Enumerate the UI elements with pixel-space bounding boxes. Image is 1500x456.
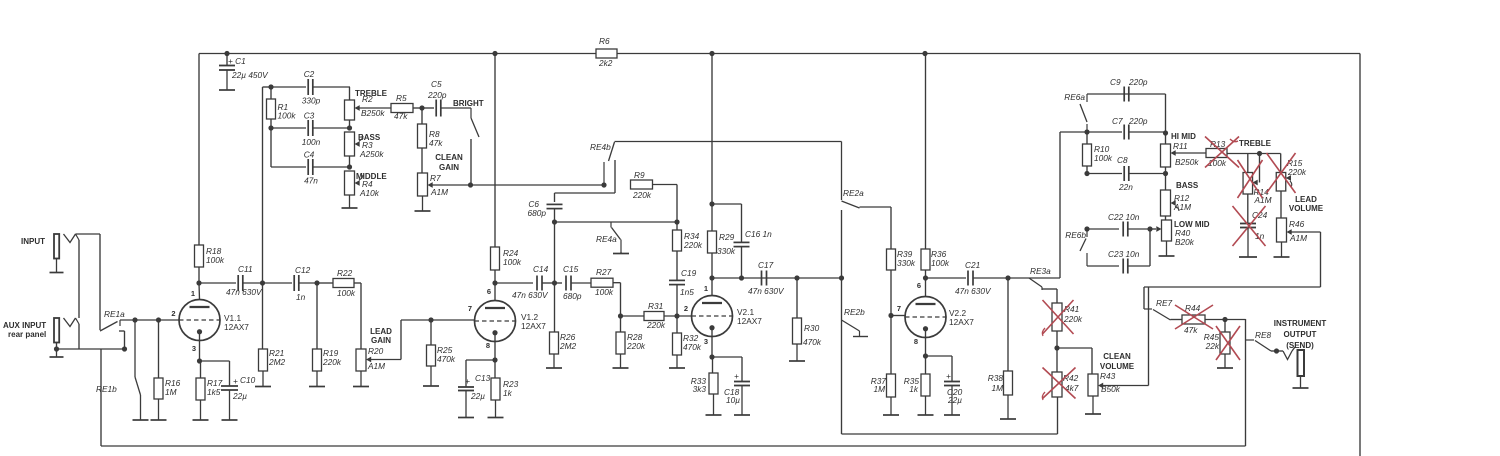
svg-text:1: 1 bbox=[704, 284, 708, 293]
capacitor C5 bbox=[422, 79, 447, 117]
wire C19 bottom bbox=[676, 285, 678, 317]
node V1.2 cathode junction bbox=[492, 357, 497, 362]
ground R30 bbox=[789, 344, 805, 361]
wire R36 to anode bbox=[925, 270, 927, 297]
red X over R42 bbox=[1042, 368, 1075, 401]
resistor R9 bbox=[631, 170, 653, 200]
svg-text:LEAD: LEAD bbox=[370, 327, 392, 336]
svg-text:RE4a: RE4a bbox=[596, 234, 617, 244]
resistor R29 bbox=[708, 231, 736, 256]
svg-text:100k: 100k bbox=[931, 258, 950, 268]
svg-text:TREBLE: TREBLE bbox=[1239, 139, 1272, 148]
ground AUX jack bbox=[50, 349, 64, 357]
resistor R13 bbox=[1206, 139, 1227, 168]
svg-text:47k: 47k bbox=[1184, 325, 1198, 335]
ground R21 bbox=[255, 371, 271, 387]
pin 7 V2.2 bbox=[897, 304, 901, 313]
svg-text:22µ 450V: 22µ 450V bbox=[231, 70, 269, 80]
potentiometer R20 bbox=[356, 346, 385, 371]
svg-text:220k: 220k bbox=[632, 190, 652, 200]
ground C13 bbox=[458, 391, 474, 418]
svg-text:RE7: RE7 bbox=[1156, 298, 1173, 308]
pin 6 V1.2 bbox=[487, 287, 491, 296]
svg-text:C17: C17 bbox=[758, 260, 774, 270]
wire INPUT tip to RE1a bbox=[76, 234, 101, 330]
wire C16 bottom bbox=[741, 247, 743, 279]
svg-text:C13: C13 bbox=[475, 373, 491, 383]
wire R29 to anode rail bbox=[711, 253, 713, 278]
potentiometer R43 bbox=[1088, 371, 1121, 396]
svg-text:47n 630V: 47n 630V bbox=[748, 286, 785, 296]
resistor R25 bbox=[427, 320, 456, 366]
capacitor C19 bbox=[669, 251, 697, 297]
resistor R5 bbox=[391, 93, 422, 121]
resistor R18 bbox=[195, 245, 225, 267]
node C12/R22/R19 junction bbox=[314, 280, 319, 285]
svg-text:CLEAN: CLEAN bbox=[1103, 352, 1131, 361]
pin 8 V1.2 bbox=[486, 341, 490, 350]
svg-text:A10k: A10k bbox=[359, 188, 380, 198]
pin 3 V2.1 bbox=[704, 337, 708, 346]
resistor R30 bbox=[793, 278, 822, 347]
svg-text:10µ: 10µ bbox=[726, 395, 740, 405]
wire clean gain output bbox=[432, 184, 471, 186]
node C21/R38 junction bbox=[1005, 275, 1010, 280]
resistor R1 bbox=[267, 87, 297, 121]
red X over R44 bbox=[1175, 305, 1213, 329]
wire R9 to R34 bbox=[653, 185, 678, 231]
wire R44 to node bbox=[1205, 319, 1246, 321]
node C3 junction bbox=[268, 125, 273, 130]
node V2.2 grid junction bbox=[888, 313, 893, 318]
label V2.1 12AX7 bbox=[737, 307, 762, 326]
svg-text:B250k: B250k bbox=[361, 108, 385, 118]
svg-text:R22: R22 bbox=[337, 268, 353, 278]
svg-text:C8: C8 bbox=[1117, 155, 1128, 165]
relay contact RE1a bbox=[100, 309, 125, 331]
ground INPUT jack bbox=[50, 259, 64, 273]
wire cathode to C10 bbox=[200, 361, 230, 386]
relay contact RE4a bbox=[596, 222, 621, 254]
node V2.2 anode bbox=[923, 275, 928, 280]
wire AUX sleeve bbox=[56, 343, 58, 350]
svg-text:220p: 220p bbox=[1128, 116, 1148, 126]
svg-text:330k: 330k bbox=[897, 258, 916, 268]
svg-text:RE4b: RE4b bbox=[590, 142, 611, 152]
wire V1.2 cathode bbox=[494, 332, 496, 360]
svg-text:7: 7 bbox=[468, 304, 472, 313]
label LEAD VOLUME bbox=[1289, 195, 1324, 213]
svg-text:R2: R2 bbox=[362, 94, 373, 104]
svg-text:680p: 680p bbox=[528, 208, 547, 218]
node V1.2 anode bbox=[492, 280, 497, 285]
svg-text:47n 630V: 47n 630V bbox=[512, 290, 549, 300]
red X over C24 bbox=[1233, 206, 1266, 246]
label AUX INPUT bbox=[3, 321, 46, 339]
wire stack feed riser bbox=[263, 87, 272, 283]
svg-text:22n: 22n bbox=[1118, 182, 1133, 192]
svg-text:C7: C7 bbox=[1112, 116, 1123, 126]
resistor R41 bbox=[1052, 303, 1083, 331]
label CLEAN VOLUME bbox=[1100, 352, 1135, 371]
node V1.1 cathode junction bbox=[197, 358, 202, 363]
capacitor C23 bbox=[1087, 229, 1150, 274]
potentiometer R7 bbox=[418, 148, 449, 197]
svg-text:A1M: A1M bbox=[1289, 233, 1307, 243]
relay contact RE7 bbox=[1144, 298, 1173, 320]
ground C1 bbox=[219, 70, 235, 90]
ground R28 bbox=[613, 354, 629, 368]
svg-text:2: 2 bbox=[171, 309, 175, 318]
label INPUT bbox=[21, 237, 45, 246]
svg-text:1k5: 1k5 bbox=[207, 387, 221, 397]
wire B+ drop to R24 bbox=[494, 54, 496, 248]
capacitor C15 bbox=[555, 264, 592, 301]
svg-text:C23 10n: C23 10n bbox=[1108, 249, 1140, 259]
node C8 left junction bbox=[1084, 171, 1089, 176]
svg-text:R31: R31 bbox=[648, 301, 663, 311]
capacitor C12 bbox=[263, 265, 318, 302]
tube V2.1 bbox=[692, 296, 733, 337]
node C22 right bbox=[1147, 226, 1152, 231]
pin 3 V1.1 bbox=[192, 344, 196, 353]
wire R46 wiper out bbox=[1144, 232, 1321, 309]
node C6/R26 junction bbox=[552, 280, 557, 285]
svg-text:INPUT: INPUT bbox=[21, 237, 45, 246]
wire stack left lower bbox=[271, 128, 306, 167]
node C8 right junction bbox=[1163, 171, 1168, 176]
wire R13 to treble node bbox=[1227, 153, 1260, 155]
svg-text:R20: R20 bbox=[368, 346, 384, 356]
svg-text:+: + bbox=[233, 376, 238, 386]
capacitor C8 bbox=[1087, 155, 1166, 192]
svg-text:RE1a: RE1a bbox=[104, 309, 125, 319]
resistor R8 bbox=[418, 108, 444, 148]
svg-text:OUTPUT: OUTPUT bbox=[1284, 330, 1317, 339]
svg-text:47n 630V: 47n 630V bbox=[226, 287, 263, 297]
svg-text:A1M: A1M bbox=[430, 187, 448, 197]
label BASS mid bbox=[1176, 181, 1199, 190]
svg-text:C14: C14 bbox=[533, 264, 549, 274]
relay contact RE8 bbox=[1246, 330, 1272, 351]
node rail end RE2a bbox=[839, 275, 844, 280]
wire V2.2 cathode bbox=[925, 328, 927, 374]
svg-text:A1M: A1M bbox=[367, 361, 385, 371]
ground RE1b bbox=[133, 418, 149, 420]
red X over R14 bbox=[1238, 160, 1263, 198]
wire B+ right edge drop bbox=[1359, 54, 1361, 456]
resistor R23 bbox=[491, 360, 519, 400]
svg-text:C21: C21 bbox=[965, 260, 980, 270]
svg-text:AUX INPUT: AUX INPUT bbox=[3, 321, 46, 330]
svg-text:R38: R38 bbox=[988, 373, 1004, 383]
ground C24 bbox=[1239, 228, 1257, 258]
resistor R26 bbox=[550, 283, 577, 354]
red X over R13 bbox=[1205, 137, 1239, 168]
wire V2.1 cathode bbox=[711, 327, 713, 357]
potentiometer R46 bbox=[1277, 191, 1308, 243]
capacitor C3 bbox=[271, 111, 350, 148]
wire V2.2 grid bbox=[891, 315, 905, 317]
svg-text:C5: C5 bbox=[431, 79, 442, 89]
node R5/C5/R8 junction bbox=[419, 105, 424, 110]
svg-text:12AX7: 12AX7 bbox=[224, 322, 249, 332]
resistor R35 bbox=[904, 374, 930, 396]
capacitor C18 bbox=[724, 371, 750, 405]
svg-text:2M2: 2M2 bbox=[268, 357, 286, 367]
svg-text:220k: 220k bbox=[646, 320, 666, 330]
potentiometer R40 bbox=[1156, 220, 1194, 247]
node bright/wiper junction bbox=[468, 182, 473, 187]
svg-text:BASS: BASS bbox=[1176, 181, 1199, 190]
capacitor C7 bbox=[1087, 116, 1166, 140]
wire V2.1 pin1 bbox=[711, 278, 713, 296]
svg-text:C11: C11 bbox=[238, 264, 253, 274]
tube V1.2 bbox=[475, 301, 516, 342]
svg-text:1M: 1M bbox=[873, 384, 885, 394]
svg-text:1k: 1k bbox=[503, 388, 513, 398]
relay contact RE4b bbox=[590, 142, 615, 185]
wire R41 to R42 bbox=[1056, 331, 1058, 372]
wire B+ drop to R29 bbox=[711, 54, 713, 232]
svg-text:(SEND): (SEND) bbox=[1286, 341, 1314, 350]
svg-text:R43: R43 bbox=[1100, 371, 1116, 381]
capacitor C24 bbox=[1240, 194, 1268, 241]
wire INPUT switch contact to AUX bbox=[76, 234, 80, 318]
wire R18 to anode bbox=[198, 267, 201, 300]
svg-text:RE8: RE8 bbox=[1255, 330, 1272, 340]
capacitor C16 bbox=[734, 229, 773, 247]
svg-text:R11: R11 bbox=[1173, 141, 1188, 151]
relay contact RE2a bbox=[842, 142, 892, 250]
capacitor C1 bbox=[219, 54, 269, 81]
svg-text:22µ: 22µ bbox=[947, 395, 962, 405]
svg-text:22µ: 22µ bbox=[232, 391, 247, 401]
svg-text:C2: C2 bbox=[304, 69, 315, 79]
wire R10 bottom bbox=[1086, 166, 1088, 174]
svg-text:680p: 680p bbox=[563, 291, 582, 301]
node tone stack / R21 tap bbox=[260, 280, 265, 285]
svg-text:RE6a: RE6a bbox=[1064, 92, 1085, 102]
ground R16 bbox=[151, 399, 167, 420]
wire treble node split bbox=[1248, 154, 1281, 183]
label V2.2 12AX7 bbox=[949, 308, 974, 327]
wire C6 bottom bbox=[552, 209, 557, 284]
node RE1a aux throw bbox=[122, 346, 127, 351]
red X over R45 bbox=[1216, 326, 1240, 360]
node output jack tip bbox=[1274, 348, 1279, 353]
svg-text:8: 8 bbox=[486, 341, 490, 350]
label BRIGHT bbox=[453, 99, 484, 108]
wire C16 feed bbox=[712, 204, 742, 242]
switch BRIGHT bbox=[441, 108, 479, 185]
resistor R22 bbox=[317, 268, 356, 298]
resistor R33 bbox=[691, 357, 718, 394]
ground output jack bbox=[1293, 376, 1309, 388]
ground R40 bbox=[1159, 241, 1175, 256]
ground R19 bbox=[309, 371, 325, 387]
wire R20 wiper to V1.2 grid bbox=[371, 320, 475, 360]
resistor R16 bbox=[154, 320, 181, 399]
ground R33 bbox=[706, 394, 722, 415]
svg-text:R44: R44 bbox=[1185, 303, 1201, 313]
svg-text:12AX7: 12AX7 bbox=[949, 317, 974, 327]
ground R38 bbox=[1000, 395, 1016, 419]
svg-text:+ C1: + C1 bbox=[228, 56, 246, 66]
wire R22 to R20 bbox=[354, 283, 361, 349]
red X over R41 bbox=[1042, 300, 1073, 336]
svg-text:2k2: 2k2 bbox=[598, 58, 613, 68]
pin 2 V1.1 bbox=[171, 309, 175, 318]
svg-text:R9: R9 bbox=[634, 170, 645, 180]
wire B+ left drop to R18 bbox=[198, 54, 200, 246]
svg-text:100k: 100k bbox=[595, 287, 614, 297]
svg-text:470k: 470k bbox=[683, 342, 702, 352]
node C7 left junction bbox=[1084, 129, 1089, 134]
wire R41 to R43 bbox=[1057, 348, 1092, 374]
label MIDDLE bbox=[356, 172, 387, 181]
node C16/rail junction bbox=[739, 275, 744, 280]
svg-text:RE1b: RE1b bbox=[96, 384, 117, 394]
svg-text:100k: 100k bbox=[1094, 153, 1113, 163]
relay contact RE2b bbox=[842, 278, 869, 434]
ground R26 bbox=[546, 354, 562, 368]
svg-text:1k: 1k bbox=[909, 384, 919, 394]
svg-text:1M: 1M bbox=[991, 383, 1003, 393]
resistor R39 bbox=[887, 249, 916, 270]
node RE4a/R34 junction bbox=[674, 219, 679, 224]
capacitor C21 bbox=[926, 260, 1009, 296]
ground R7 bbox=[415, 196, 431, 211]
svg-text:RE2a: RE2a bbox=[843, 188, 864, 198]
ground R45 bbox=[1217, 354, 1233, 368]
red X over R15 bbox=[1267, 153, 1296, 193]
resistor R19 bbox=[313, 283, 342, 371]
wire stack2 feed bbox=[1008, 132, 1087, 278]
svg-text:100k: 100k bbox=[206, 255, 225, 265]
resistor R32 bbox=[673, 316, 702, 355]
svg-text:3k3: 3k3 bbox=[693, 384, 707, 394]
svg-text:220k: 220k bbox=[626, 341, 646, 351]
node RE4b/R9 junction bbox=[601, 182, 606, 187]
node TREBLE2 bbox=[1257, 151, 1262, 156]
svg-text:INSTRUMENT: INSTRUMENT bbox=[1274, 319, 1327, 328]
wire R11 wiper to R13 bbox=[1175, 152, 1206, 154]
node R25 tap bbox=[428, 317, 433, 322]
node R41/R42 junction bbox=[1054, 345, 1059, 350]
node B+/C1 junction bbox=[224, 51, 229, 56]
ground C10 bbox=[222, 390, 238, 420]
svg-text:6: 6 bbox=[487, 287, 491, 296]
svg-text:R7: R7 bbox=[430, 173, 441, 183]
svg-text:B20k: B20k bbox=[1175, 237, 1195, 247]
resistor R45 bbox=[1204, 320, 1230, 355]
potentiometer R12 bbox=[1161, 174, 1192, 217]
resistor R10 bbox=[1083, 132, 1113, 166]
ground R46 bbox=[1274, 242, 1290, 257]
ground R25 bbox=[423, 366, 439, 386]
svg-text:470k: 470k bbox=[437, 354, 456, 364]
svg-text:22µ: 22µ bbox=[470, 391, 485, 401]
node B+/R36 drop junction bbox=[922, 51, 927, 56]
svg-text:47n 630V: 47n 630V bbox=[955, 286, 992, 296]
resistor R6 bbox=[596, 36, 617, 68]
pin 8 V2.2 bbox=[914, 337, 918, 346]
svg-text:47n: 47n bbox=[304, 176, 318, 186]
capacitor C17 bbox=[748, 260, 785, 296]
wire cathode to C20 bbox=[926, 356, 953, 381]
capacitor C22 bbox=[1087, 212, 1150, 237]
label V1.1 12AX7 bbox=[224, 313, 249, 332]
svg-text:R6: R6 bbox=[599, 36, 610, 46]
node B+/R24 drop junction bbox=[492, 51, 497, 56]
svg-text:B250k: B250k bbox=[1175, 157, 1199, 167]
wire C22 to R40 wiper bbox=[1150, 228, 1156, 230]
wire ground bus bbox=[101, 319, 1246, 446]
ground R35 bbox=[918, 396, 934, 415]
wire RE4b top line bbox=[615, 141, 842, 143]
ground R43 bbox=[1085, 396, 1101, 414]
wire cathode to C13 bbox=[466, 360, 495, 387]
wire RE4a line bbox=[555, 221, 678, 223]
capacitor C6 bbox=[528, 199, 563, 218]
resistor R21 bbox=[259, 283, 286, 371]
svg-text:GAIN: GAIN bbox=[371, 336, 391, 345]
svg-text:+: + bbox=[465, 376, 470, 386]
resistor R34 bbox=[673, 230, 703, 251]
node RE1b tap bbox=[132, 317, 137, 322]
svg-text:VOLUME: VOLUME bbox=[1100, 362, 1135, 371]
svg-text:LEAD: LEAD bbox=[1295, 195, 1317, 204]
svg-text:R46: R46 bbox=[1289, 219, 1305, 229]
svg-text:BRIGHT: BRIGHT bbox=[453, 99, 484, 108]
svg-text:7: 7 bbox=[897, 304, 901, 313]
svg-text:C19: C19 bbox=[681, 268, 697, 278]
resistor R24 bbox=[491, 247, 522, 270]
svg-text:rear panel: rear panel bbox=[8, 330, 46, 339]
relay contact RE6a bbox=[1064, 92, 1087, 132]
node C19/R32 junction bbox=[674, 313, 679, 318]
node V2.1 anode bbox=[709, 275, 714, 280]
capacitor C13 bbox=[458, 373, 491, 401]
svg-text:A1M: A1M bbox=[1254, 195, 1272, 205]
svg-text:C16 1n: C16 1n bbox=[745, 229, 772, 239]
node HI MID top bbox=[1163, 130, 1168, 135]
svg-text:47k: 47k bbox=[429, 138, 443, 148]
node V2.1 cathode junction bbox=[709, 354, 714, 359]
capacitor C20 bbox=[944, 371, 963, 405]
wire B+ top rail bbox=[199, 53, 1360, 55]
svg-text:3: 3 bbox=[192, 344, 196, 353]
svg-text:RE3a: RE3a bbox=[1030, 266, 1051, 276]
svg-text:C10: C10 bbox=[240, 375, 256, 385]
wire RE1a aux throw up bbox=[119, 331, 125, 349]
capacitor C4 bbox=[304, 150, 350, 186]
svg-text:6: 6 bbox=[917, 281, 921, 290]
potentiometer R14 bbox=[1243, 173, 1272, 206]
resistor R37 bbox=[871, 374, 896, 397]
svg-text:C15: C15 bbox=[563, 264, 579, 274]
label CLEAN GAIN bbox=[435, 153, 463, 172]
ground R37 bbox=[883, 397, 899, 415]
resistor R5 wire bbox=[358, 107, 391, 109]
svg-text:220k: 220k bbox=[1063, 314, 1083, 324]
potentiometer R11 bbox=[1161, 133, 1200, 174]
wire cathode to C18 bbox=[712, 357, 742, 381]
capacitor C14 bbox=[495, 264, 552, 300]
svg-text:C3: C3 bbox=[304, 111, 315, 121]
svg-text:GAIN: GAIN bbox=[439, 163, 459, 172]
